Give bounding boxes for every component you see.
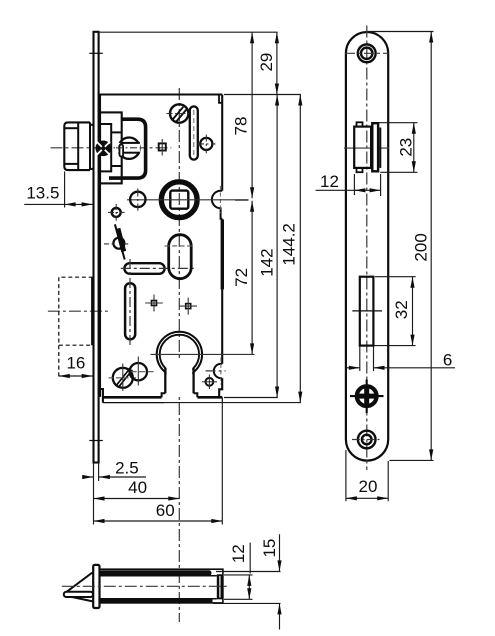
dim 144.2 line bbox=[299, 95, 301, 403]
centerline latch axis bbox=[51, 147, 172, 149]
dim 12 bottom label line bbox=[249, 543, 251, 574]
dim 12 bottom arrow shaft bbox=[248, 575, 250, 599]
16 bbox=[59, 374, 70, 378]
SIDE: ext plate bottom to 200 bbox=[390, 459, 434, 461]
bottom view centerline bbox=[62, 585, 227, 587]
SIDE: ext slot top to 32 bbox=[375, 276, 416, 278]
lower slot opening (deadbolt window) bbox=[360, 277, 374, 346]
dim 2.5 arrows/leader bbox=[84, 476, 94, 478]
cylinder horizontal centerline / extension bbox=[151, 353, 255, 355]
top screw hole grommet bbox=[358, 44, 376, 62]
ext line plate top (front) bbox=[100, 31, 278, 33]
latch bolt body (top view) outline bbox=[100, 569, 223, 603]
spring pill slot bbox=[190, 106, 198, 159]
horizontal pill slot bbox=[124, 263, 164, 274]
latch mount box inside case bbox=[100, 112, 122, 183]
latch face bold plate bbox=[372, 123, 378, 171]
centerline vertical through spindle/cylinder (node axis) bbox=[178, 88, 180, 622]
dim 13.5 leader+line bbox=[24, 203, 92, 205]
inner wall lines bbox=[100, 575, 217, 577]
latch tail box bbox=[100, 124, 111, 171]
cylinder screw with slash bbox=[113, 368, 133, 388]
small hole right of pill bbox=[200, 138, 212, 150]
ext case right down bbox=[221, 403, 223, 525]
SIDE: ext slot bottom to 32 bbox=[374, 345, 415, 347]
ext plate edges down bbox=[93, 463, 95, 525]
spindle square bbox=[170, 191, 188, 209]
12 side bbox=[354, 188, 365, 192]
dim 29 line bbox=[276, 32, 278, 94]
dim 6 lines bbox=[346, 367, 360, 369]
142 bbox=[275, 95, 279, 106]
punch hole bottom right bbox=[206, 378, 214, 386]
faceplate cross-section bbox=[93, 565, 99, 608]
svg-text:2.5: 2.5 bbox=[115, 459, 139, 478]
large oval slot below spindle bbox=[169, 235, 192, 279]
SIDE: ext latch top bbox=[379, 122, 418, 124]
centerline strike box bbox=[48, 310, 111, 312]
cylinder fixing hole bbox=[130, 363, 147, 380]
78 bbox=[250, 32, 254, 43]
svg-text:6: 6 bbox=[443, 350, 452, 369]
strike box (dashed) bbox=[59, 277, 93, 345]
svg-text:78: 78 bbox=[232, 117, 251, 136]
dim 142 line bbox=[276, 95, 278, 398]
hole left of spindle bbox=[130, 192, 145, 207]
dim 15 top leader bbox=[279, 534, 281, 571]
vertical pill slot bbox=[125, 283, 135, 339]
13.5 bbox=[65, 202, 76, 206]
latch bolt right cap (bold) bbox=[217, 574, 223, 599]
case right edge middle bbox=[221, 219, 223, 364]
ext line case bottom right bbox=[224, 397, 278, 399]
bottom screw hole bbox=[358, 431, 376, 449]
case bottom-left step bbox=[100, 389, 103, 403]
case right edge bottom + step bbox=[219, 378, 222, 397]
svg-text:29: 29 bbox=[257, 53, 276, 72]
latch bolt bottom wall (black band) bbox=[100, 599, 213, 603]
right edge upper notch (handle spring cutout) bbox=[212, 191, 222, 219]
latch top tab bbox=[357, 122, 363, 126]
latch bolt side view body bbox=[354, 127, 371, 168]
SIDE: ext plate sides down for 20 bbox=[345, 450, 347, 501]
dim 200 line bbox=[430, 32, 432, 461]
faceplate (front view, thin vertical plate) bbox=[92, 32, 94, 463]
spindle horizontal centerline / extension bbox=[127, 199, 249, 201]
latch nose finger bbox=[64, 592, 93, 597]
spindle hub ring (bold) bbox=[161, 182, 197, 218]
2.5 bbox=[82, 475, 93, 479]
euro cylinder keyhole cutout bbox=[157, 332, 202, 377]
32 bbox=[410, 277, 414, 288]
SIDE: ext latch bottom bbox=[380, 171, 417, 173]
svg-text:20: 20 bbox=[359, 477, 378, 496]
right edge bold fold segment bbox=[221, 220, 224, 290]
latch axis line (side view) bbox=[344, 147, 389, 149]
big phillips screw bbox=[350, 395, 384, 397]
svg-text:12: 12 bbox=[229, 544, 248, 563]
top screw with slash bbox=[170, 104, 188, 122]
latch axis marker square bbox=[159, 143, 166, 150]
60 bbox=[94, 519, 105, 523]
ext line case top (front) bbox=[224, 94, 301, 96]
72 bbox=[250, 201, 254, 212]
latch cam disc bbox=[118, 138, 139, 159]
BOTTOM: ext body bottom right for 15 bbox=[213, 602, 281, 604]
SIDE: ext plate top to 200 bbox=[367, 31, 433, 33]
latch centerline segment over cam slot bbox=[116, 147, 140, 149]
dim 60 line bbox=[94, 520, 223, 522]
lock case outline bbox=[100, 95, 222, 397]
dim 20 line bbox=[346, 497, 388, 499]
6 bbox=[349, 366, 360, 370]
dimension texts bbox=[26, 53, 452, 564]
case bottom flange (bold) bbox=[103, 396, 162, 399]
latch housing lines bbox=[111, 131, 122, 133]
svg-text:144.2: 144.2 bbox=[279, 223, 298, 266]
latch bevel hypotenuse bbox=[67, 573, 93, 592]
144.2 bbox=[298, 95, 302, 106]
svg-text:16: 16 bbox=[66, 354, 85, 373]
svg-text:15: 15 bbox=[260, 539, 279, 558]
side plate vertical centerline bbox=[366, 26, 368, 471]
svg-text:72: 72 bbox=[232, 268, 251, 287]
dim 12 side leader bbox=[316, 189, 357, 191]
side plate outline (rounded ends) bbox=[346, 32, 388, 461]
svg-text:23: 23 bbox=[396, 138, 415, 157]
23 bbox=[412, 123, 416, 134]
40 bbox=[94, 496, 105, 500]
faceplate deadbolt slot (bold bar) bbox=[91, 277, 94, 345]
dim 40 line bbox=[94, 498, 180, 500]
ext line spindle axis right bbox=[235, 199, 249, 201]
latch screw (phillips, filled) bbox=[96, 141, 112, 157]
punch mark 1 bbox=[152, 301, 157, 306]
ext line skirt bottom bbox=[165, 402, 301, 404]
dim 23 line bbox=[413, 123, 415, 173]
dim 32 line bbox=[412, 277, 414, 346]
svg-text:200: 200 bbox=[411, 233, 430, 261]
punch mark 2 bbox=[186, 304, 191, 309]
latch lower bevel line bbox=[72, 597, 93, 601]
case top-right corner notch bbox=[219, 95, 222, 103]
svg-text:13.5: 13.5 bbox=[26, 183, 59, 202]
BOTTOM: ext body top right for 15 bbox=[216, 571, 281, 573]
small hole below-left of spindle bbox=[112, 208, 121, 217]
20 bbox=[346, 496, 357, 500]
latch bottom tab bbox=[357, 168, 363, 172]
dim 16 line bbox=[59, 375, 93, 377]
latch bold edge line bbox=[379, 128, 381, 168]
BOTTOM: ext inner walls for 12 bbox=[224, 574, 253, 576]
svg-text:60: 60 bbox=[156, 501, 175, 520]
C spring clip (bold) bbox=[109, 119, 146, 178]
15 bbox=[277, 560, 281, 571]
svg-text:32: 32 bbox=[392, 300, 411, 319]
12 bottom bbox=[247, 575, 251, 586]
case bottom flange lower thin line bbox=[103, 402, 165, 404]
faceplate tick marks bbox=[89, 52, 103, 54]
200 bbox=[429, 32, 433, 43]
latch neck between head and plate bbox=[90, 124, 94, 126]
ext latch head left bbox=[64, 172, 66, 208]
svg-text:12: 12 bbox=[320, 172, 339, 191]
latch tail sliver bbox=[120, 145, 124, 157]
slot tick mark bbox=[352, 310, 382, 312]
latch head (left of faceplate) bbox=[64, 122, 90, 170]
right edge lower notch bbox=[214, 364, 222, 378]
dim 78 line bbox=[251, 32, 253, 198]
svg-text:142: 142 bbox=[257, 248, 276, 276]
dim 15 bottom leader bbox=[279, 603, 281, 629]
SIDE: ext slot sides down for 6 bbox=[359, 347, 361, 372]
svg-text:40: 40 bbox=[128, 478, 147, 497]
case right edge upper bbox=[221, 95, 223, 191]
latch bolt top wall (black band) bbox=[100, 570, 212, 575]
SIDE: ext latch sides down bbox=[353, 174, 355, 195]
dim 72 line bbox=[251, 201, 253, 355]
anti-card flag lever bbox=[113, 238, 124, 249]
arrowheads bbox=[59, 32, 434, 615]
29 bbox=[275, 32, 279, 43]
dim 12 side line bbox=[354, 189, 380, 191]
